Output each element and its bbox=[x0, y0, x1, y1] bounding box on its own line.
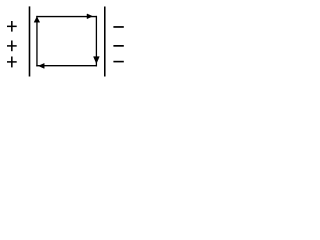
plus charge symbol 1 bbox=[7, 21, 17, 32]
wire: loop bottom segment bbox=[36, 65, 97, 67]
positive capacitor plate (left) bbox=[29, 6, 31, 76]
plus charge symbol 2 bbox=[7, 41, 17, 52]
wire: loop left segment bbox=[36, 16, 38, 67]
arrowhead left (bottom side of loop) bbox=[39, 63, 45, 68]
arrowhead up (left side of loop) bbox=[34, 17, 40, 22]
wire: loop right segment bbox=[95, 16, 97, 67]
minus charge symbol 2 bbox=[113, 45, 123, 47]
minus charge symbol 3 bbox=[113, 61, 123, 63]
arrowhead down (right side of loop) bbox=[94, 57, 100, 64]
minus charge symbol 1 bbox=[113, 26, 123, 28]
negative capacitor plate (right) bbox=[104, 7, 106, 77]
wire: loop top segment bbox=[36, 16, 97, 18]
plus charge symbol 3 bbox=[7, 57, 17, 68]
arrowhead right (top side of loop) bbox=[87, 14, 93, 19]
